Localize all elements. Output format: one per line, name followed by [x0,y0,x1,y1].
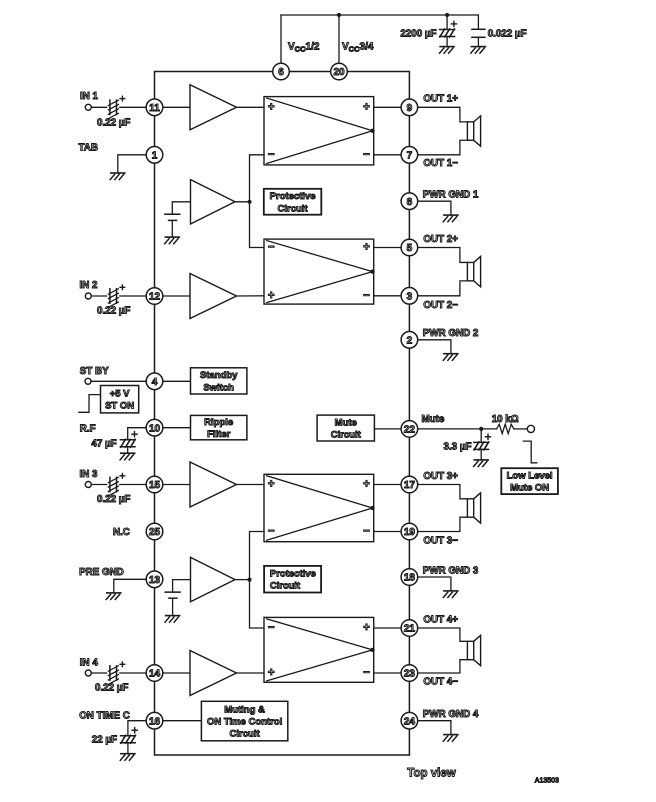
wire amp1 out- to pin 7 [374,154,401,156]
speaker load 4 [418,628,481,673]
svg-text:−: − [268,526,275,538]
wire RF cap to ground [127,447,129,453]
op-amp buffer 4 [190,651,237,696]
capacitor input 4, 0.22 uF [108,666,118,685]
waveform step ST ON [79,395,100,413]
wire pin6 to rail [280,15,282,63]
wire pin 3 PWR GND [418,577,451,591]
block Protective Circuit 1 [264,189,322,215]
wire protect2 tip [235,579,250,581]
wire pin4 to standby switch [163,380,191,382]
svg-text:15: 15 [149,480,161,491]
svg-text:Mute: Mute [422,414,445,425]
wire amp1 -in feedback [250,155,265,248]
wire buffer3 to amp3 +in [237,484,265,486]
pin 12 [146,288,163,305]
junction rail/2200uF [445,13,449,17]
svg-text:Muting &: Muting & [224,704,265,715]
svg-text:−: − [363,149,370,161]
wire amp3 out+ to pin 17 [374,484,401,486]
pin 24 [401,712,418,729]
junction feedback/protect2 [247,578,251,582]
svg-text:0.22 µF: 0.22 µF [97,117,130,128]
wire cap to pin 14 [120,672,146,674]
svg-text:A13503: A13503 [535,778,559,785]
wire pin20 to rail [338,15,340,63]
svg-text:Circuit: Circuit [230,729,261,740]
terminal IN 4 [85,670,91,676]
pin 15 [146,476,163,493]
svg-text:19: 19 [404,527,416,538]
wire buffer1 to amp1 +in [237,106,265,108]
svg-text:IN 3: IN 3 [80,469,99,480]
IC package outline [155,72,410,756]
svg-text:ON TIME C: ON TIME C [79,710,130,721]
pin 21 [401,620,418,637]
ground 0.022uF [471,47,486,54]
svg-text:13: 13 [149,575,161,586]
pin 3 [401,288,418,305]
speaker load 2 [418,248,481,296]
svg-text:+: + [268,290,275,302]
svg-text:14: 14 [149,669,161,680]
block Protective Circuit 2 [264,566,321,593]
svg-text:Low Level: Low Level [507,470,553,481]
svg-text:IN 4: IN 4 [80,658,99,669]
svg-text:OUT 3−: OUT 3− [423,536,458,547]
pin 7 [401,147,418,164]
wire amp1 out+ to pin 9 [374,106,401,108]
wire buffer2 to amp2 +in [237,295,265,297]
svg-text:11: 11 [149,103,160,114]
svg-text:+: + [268,102,275,114]
pin 20 [331,63,348,80]
svg-text:Protective: Protective [270,569,316,580]
pin 10 [146,419,163,436]
terminal IN 2 [85,293,91,299]
svg-text:10 kΩ: 10 kΩ [492,414,519,425]
wire pin 4 PWR GND [418,721,451,735]
svg-text:ON Time Control: ON Time Control [207,716,282,727]
svg-text:−: − [363,667,370,679]
svg-text:20: 20 [333,67,345,78]
wire pin10 to RF cap [128,428,147,440]
svg-text:PWR GND 2: PWR GND 2 [423,328,479,339]
svg-text:0.22 µF: 0.22 µF [97,306,130,317]
capacitor ON TIME 22 uF [121,735,136,743]
svg-text:OUT 2+: OUT 2+ [423,234,458,245]
op-amp buffer 3 [190,462,237,507]
wire protect2 input [173,580,191,593]
ground protect 3/4 [165,616,180,623]
terminal IN 1 [85,104,91,110]
svg-text:1: 1 [152,150,158,161]
svg-text:Protective: Protective [270,191,316,202]
wire STBY to pin 4 [91,380,146,382]
pin 2 [401,332,418,349]
wire amp3 out- to pin 19 [374,531,401,533]
svg-text:6: 6 [278,67,284,78]
wire amp2 out- to pin 3 [374,295,401,297]
terminal IN 3 [85,482,91,488]
pin 16 [146,712,163,729]
block Low Level Mute ON [501,468,558,494]
wire 2200uF top [446,15,448,30]
svg-text:0.22 µF: 0.22 µF [95,683,128,694]
svg-text:3: 3 [407,291,413,302]
power amplifier 4 [264,617,374,682]
wire protect1 tip [235,201,250,203]
capacitor input 2, 0.22 uF [108,289,118,308]
svg-text:+: + [363,242,370,254]
pin 6 [273,63,290,80]
pin 14 [146,665,163,682]
block Mute Circuit [317,415,374,441]
junction amp4 triangle tip [370,648,374,652]
svg-text:21: 21 [404,624,416,635]
wire pin 2 PWR GND [418,340,451,354]
wire amp3 -in feedback [250,532,265,629]
svg-text:R.F: R.F [80,424,96,435]
junction feedback/protect1 [247,200,251,204]
svg-text:OUT 2−: OUT 2− [423,300,458,311]
waveform step Mute ON [523,441,536,463]
wire pin 1 PWR GND [418,201,451,215]
svg-text:PWR GND 1: PWR GND 1 [423,190,479,201]
junction mute/3.3uF [479,427,483,431]
svg-text:+: + [363,622,370,634]
wire 0.022uF bottom [477,37,479,46]
svg-text:24: 24 [404,716,416,727]
svg-text:9: 9 [407,103,413,114]
power amplifier 3 [264,474,374,541]
speaker load 3 [418,485,481,532]
pin 23 [401,665,418,682]
svg-text:10: 10 [149,423,161,434]
pin 17 [401,476,418,493]
block +5V ST ON label [101,386,139,413]
block Ripple Filter [191,415,247,440]
svg-text:25: 25 [149,527,161,538]
svg-text:ST ON: ST ON [105,401,134,412]
wire pin12 to buffer 2 [163,295,190,297]
svg-text:+: + [363,479,370,491]
pin 25 [146,523,163,540]
junction amp2 triangle tip [370,270,374,274]
svg-text:2: 2 [407,335,413,346]
svg-text:Circuit: Circuit [270,581,301,592]
resistor R mute 10 k [497,424,514,433]
wire pin11 to buffer 1 [163,106,190,108]
wire pin14 to buffer 4 [163,672,190,674]
pin 9 [401,99,418,116]
svg-text:8: 8 [407,197,413,208]
svg-text:18: 18 [404,573,416,584]
wire 3.3uF top [480,429,482,443]
svg-text:−: − [268,242,275,254]
junction rail/pin20 [337,13,341,17]
svg-text:Circuit: Circuit [278,203,309,214]
ground 3.3uF [474,460,489,467]
svg-text:Standby: Standby [200,370,238,381]
svg-text:47 µF: 47 µF [91,439,116,450]
svg-text:22: 22 [404,425,416,436]
block Muting and ON Time Control [201,701,287,741]
svg-text:23: 23 [404,669,416,680]
wire IN3 to cap [91,484,106,486]
ground PWR GND 3 [443,591,458,598]
wire protect2 cap to ground [172,598,174,615]
svg-text:Switch: Switch [203,382,234,393]
wire cap to pin 15 [120,484,146,486]
svg-text:IN 1: IN 1 [80,91,99,102]
wire cap to pin 12 [120,295,146,297]
svg-text:N.C: N.C [113,527,130,538]
svg-text:Circuit: Circuit [331,430,362,441]
capacitor mute 3.3 uF [474,442,489,450]
svg-text:7: 7 [407,150,413,161]
svg-text:−: − [268,149,275,161]
svg-text:5: 5 [407,243,413,254]
capacitor R.F 47 uF [120,439,135,447]
wire protect1 cap to ground [171,220,173,237]
ground R.F [120,453,135,460]
wire 0.022uF top [477,15,479,29]
capacitor input 3, 0.22 uF [108,477,118,496]
svg-text:16: 16 [149,716,161,727]
op-amp buffer 2 [190,274,237,319]
junction amp3 triangle tip [370,506,374,510]
svg-text:0.022 µF: 0.022 µF [488,28,527,39]
wire pin15 to buffer 3 [163,484,190,486]
wire pin22 to mute terminal [418,428,497,430]
ground PWR GND 1 [443,215,458,222]
svg-text:4: 4 [152,377,158,388]
svg-text:OUT 3+: OUT 3+ [423,471,458,482]
wire protect1 input [172,202,190,214]
svg-text:OUT 4+: OUT 4+ [423,614,458,625]
svg-text:Filter: Filter [207,429,231,440]
ground TAB [110,173,125,180]
wire IN4 to cap [91,672,106,674]
wire amp4 out- to pin 23 [374,672,401,674]
svg-text:PWR GND 3: PWR GND 3 [423,565,479,576]
wire 2200uF bottom [446,37,448,47]
junction amp1 triangle tip [370,129,374,133]
svg-text:2200 µF: 2200 µF [400,28,436,39]
pin 19 [401,523,418,540]
capacitor input 1, 0.22 uF [108,100,118,119]
svg-text:−: − [363,526,370,538]
svg-text:3.3 µF: 3.3 µF [444,441,472,452]
svg-text:OUT 1−: OUT 1− [423,158,458,169]
wire pin13 to ground [114,579,146,593]
svg-text:+: + [268,479,275,491]
wire cap to pin 11 [120,106,146,108]
svg-text:OUT 1+: OUT 1+ [423,94,458,105]
svg-text:PWR GND 4: PWR GND 4 [423,709,479,720]
op-amp protect buffer 3/4 [191,557,236,601]
svg-text:0.22 µF: 0.22 µF [97,494,130,505]
svg-text:−: − [363,290,370,302]
pin 18 [401,569,418,586]
op-amp buffer 1 [190,85,237,130]
speaker load 1 [418,107,481,155]
wire 22uF to ground [127,743,129,754]
svg-text:TAB: TAB [79,142,98,153]
pin 4 [146,373,163,390]
ground PRE GND [106,593,121,600]
ground PWR GND 4 [443,735,458,742]
svg-text:12: 12 [149,292,161,303]
svg-text:+: + [363,102,370,114]
svg-text:IN 2: IN 2 [80,280,99,291]
wire IN1 to cap [91,106,106,108]
svg-text:PRE GND: PRE GND [79,567,124,578]
svg-text:22 µF: 22 µF [92,735,117,746]
wire 3.3uF to ground [480,449,482,460]
svg-text:Mute ON: Mute ON [510,483,549,494]
power amplifier 2 [264,239,374,304]
wire amp2 out+ to pin 5 [374,247,401,249]
ground 22uF [120,754,135,761]
wire buffer4 to amp4 +in [237,672,265,674]
svg-text:Ripple: Ripple [204,417,233,428]
wire pin16 to 22uF [128,721,146,736]
op-amp protect buffer 1/2 [191,180,236,224]
svg-text:OUT 4−: OUT 4− [423,677,458,688]
capacitor C_supply2 0.022 uF [472,29,485,37]
wire IN2 to cap [91,295,106,297]
wire resistor to terminal [514,428,528,430]
capacitor protect 3/4 [165,592,180,598]
capacitor C_supply 2200 uF [440,29,455,37]
terminal ST BY [85,378,91,384]
pin 1 [146,147,163,164]
block Standby Switch [191,368,247,394]
svg-text:Top view: Top view [407,768,455,780]
ground protect 1/2 [165,237,180,244]
svg-text:ST BY: ST BY [80,366,109,377]
wire VCC supply rail [281,14,478,16]
ground PWR GND 2 [443,354,458,361]
capacitor protect 1/2 [165,214,180,220]
wire pin16 to muting block [163,720,202,722]
pin 22 [401,421,418,438]
wire pin10 to ripple filter [163,427,191,429]
power amplifier 1 [264,97,374,165]
pin 11 [146,99,163,116]
svg-text:+5 V: +5 V [110,389,130,400]
svg-text:+: + [268,667,275,679]
wire mute circuit to pin 22 [374,428,401,430]
svg-text:Mute: Mute [335,417,357,428]
svg-text:17: 17 [404,480,416,491]
pin 13 [146,571,163,588]
pin 5 [401,239,418,256]
ground 2200uF [440,47,455,54]
terminal mute input [527,425,534,432]
svg-text:−: − [268,622,275,634]
pin 8 [401,193,418,210]
wire pin1 to TAB ground [118,155,146,173]
wire amp4 out+ to pin 21 [374,627,401,629]
